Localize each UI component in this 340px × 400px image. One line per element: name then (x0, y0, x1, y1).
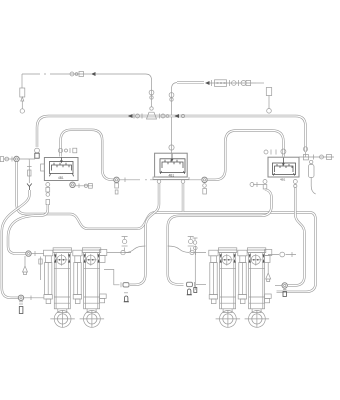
svg-text:4B1: 4B1 (58, 176, 64, 180)
svg-text:4B1: 4B1 (280, 178, 286, 182)
svg-text:4B1: 4B1 (169, 173, 175, 177)
